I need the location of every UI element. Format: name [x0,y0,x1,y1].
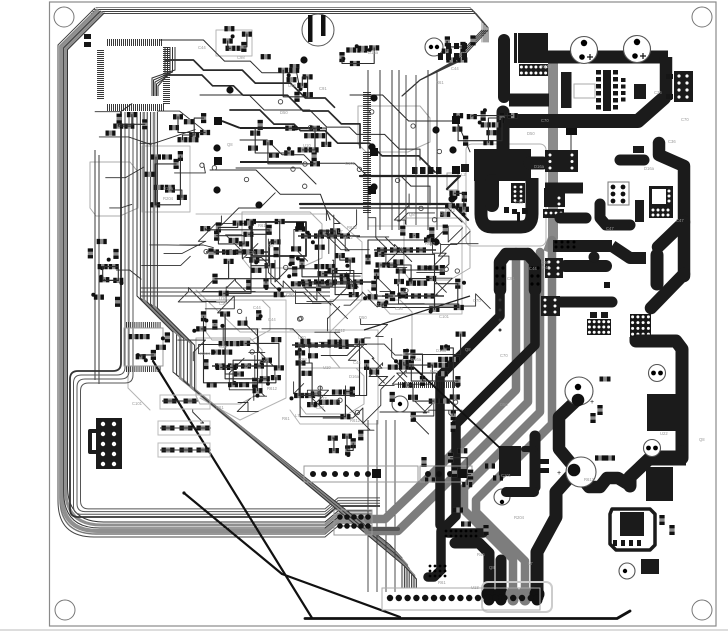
svg-text:R204: R204 [200,351,211,356]
svg-text:D16a: D16a [368,50,379,55]
svg-text:C36: C36 [668,139,676,144]
svg-text:R61: R61 [436,80,444,85]
svg-text:D50: D50 [500,402,508,407]
svg-text:Q8: Q8 [268,243,274,248]
svg-text:D50: D50 [527,131,535,136]
svg-text:C47: C47 [606,226,614,231]
svg-text:C47: C47 [260,359,268,364]
svg-text:R612: R612 [445,208,456,213]
svg-text:C98: C98 [299,357,307,362]
svg-text:+: + [590,399,594,406]
svg-text:R61: R61 [258,223,266,228]
svg-text:R45: R45 [542,265,550,270]
svg-text:C101: C101 [345,161,356,166]
svg-text:C91: C91 [319,86,327,91]
svg-text:L7: L7 [255,327,260,332]
svg-text:D16a: D16a [534,164,545,169]
svg-text:C44: C44 [529,266,537,271]
svg-text:D16a: D16a [349,374,360,379]
svg-text:R204: R204 [163,196,174,201]
svg-text:C44: C44 [268,317,276,322]
svg-text:C36: C36 [515,200,523,205]
svg-text:C101: C101 [501,473,512,478]
svg-text:Q8: Q8 [409,212,415,217]
svg-text:L7: L7 [338,229,343,234]
svg-text:C98: C98 [286,292,294,297]
svg-text:R204: R204 [514,515,525,520]
svg-text:U13: U13 [288,83,296,88]
svg-text:U22: U22 [374,302,382,307]
svg-text:U22: U22 [660,431,668,436]
svg-text:D16a: D16a [163,186,174,191]
svg-text:C98: C98 [237,55,245,60]
svg-text:R612: R612 [425,241,436,246]
svg-text:R612: R612 [541,64,552,69]
svg-text:C36: C36 [395,306,403,311]
svg-text:C44: C44 [253,305,261,310]
svg-text:U10: U10 [323,365,331,370]
svg-text:U10: U10 [303,143,311,148]
svg-text:R61: R61 [282,416,290,421]
svg-text:U22: U22 [345,235,353,240]
svg-text:R61: R61 [216,405,224,410]
svg-text:R45: R45 [477,552,485,557]
svg-text:R612: R612 [347,225,358,230]
svg-text:C70: C70 [473,298,481,303]
svg-text:C98: C98 [316,405,324,410]
svg-text:C70: C70 [500,353,508,358]
svg-text:R612: R612 [350,418,361,423]
svg-text:D16a: D16a [436,348,447,353]
svg-text:U22: U22 [319,396,327,401]
svg-text:C44: C44 [451,66,459,71]
svg-text:R612: R612 [335,328,346,333]
svg-text:L7: L7 [528,561,533,566]
svg-text:R612: R612 [584,477,595,482]
svg-text:C70: C70 [541,118,549,123]
svg-text:C47: C47 [676,218,684,223]
svg-text:C70: C70 [298,335,306,340]
svg-text:+: + [557,470,561,477]
svg-text:C36: C36 [248,250,256,255]
svg-text:C101: C101 [132,401,143,406]
svg-text:R61: R61 [245,363,253,368]
svg-text:C36: C36 [219,344,227,349]
svg-text:R612: R612 [267,386,278,391]
svg-text:L2: L2 [461,172,466,177]
svg-text:C44: C44 [198,45,206,50]
svg-text:Q8: Q8 [699,437,705,442]
svg-text:D50: D50 [280,110,288,115]
svg-text:R61: R61 [438,580,446,585]
svg-text:D16a: D16a [411,357,422,362]
svg-text:C70: C70 [681,117,689,122]
svg-text:Q8: Q8 [465,347,471,352]
svg-text:R45: R45 [430,369,438,374]
svg-text:C101: C101 [439,314,450,319]
svg-text:C36: C36 [219,301,227,306]
svg-text:Q8: Q8 [227,142,233,147]
svg-text:Q8: Q8 [489,565,495,570]
svg-text:C91: C91 [507,276,515,281]
svg-text:D50: D50 [359,315,367,320]
svg-text:L7: L7 [295,413,300,418]
svg-text:C44: C44 [353,360,361,365]
svg-text:U13: U13 [471,585,479,590]
svg-text:C36: C36 [654,90,662,95]
svg-text:D16a: D16a [644,166,655,171]
